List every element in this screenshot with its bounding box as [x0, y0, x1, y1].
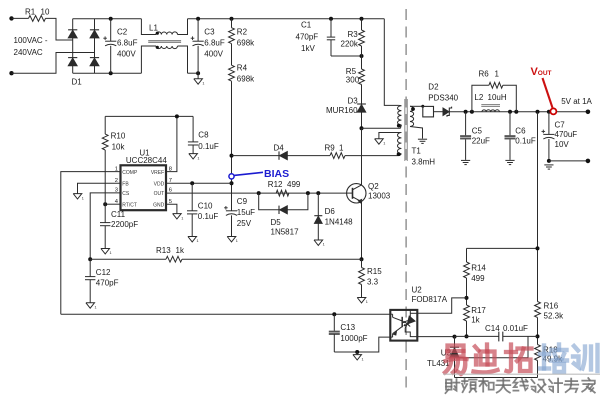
svg-text:1kV: 1kV [301, 44, 315, 53]
svg-text:10k: 10k [112, 143, 126, 152]
svg-text:470uF: 470uF [555, 130, 578, 139]
svg-text:OUT: OUT [154, 191, 165, 197]
svg-text:C2: C2 [117, 27, 128, 36]
svg-text:698k: 698k [237, 39, 255, 48]
svg-text:R1: R1 [25, 8, 36, 17]
svg-text:1: 1 [82, 196, 84, 200]
svg-text:10: 10 [41, 8, 50, 17]
svg-text:499: 499 [287, 180, 301, 189]
svg-text:OUT: OUT [538, 70, 552, 77]
svg-text:1k: 1k [176, 246, 185, 255]
svg-text:698k: 698k [237, 74, 255, 83]
svg-text:GND: GND [153, 202, 165, 208]
svg-text:C9: C9 [237, 197, 248, 206]
svg-text:CS: CS [122, 191, 130, 197]
svg-text:3.8mH: 3.8mH [412, 157, 436, 166]
svg-text:1: 1 [495, 70, 500, 79]
svg-text:1: 1 [202, 82, 204, 86]
svg-text:1: 1 [95, 306, 97, 310]
svg-text:R12: R12 [268, 180, 283, 189]
svg-text:15uF: 15uF [237, 208, 255, 217]
svg-text:300: 300 [346, 76, 360, 85]
svg-text:1: 1 [181, 216, 183, 220]
svg-text:BIAS: BIAS [264, 168, 289, 180]
svg-text:10V: 10V [555, 140, 570, 149]
svg-text:R6: R6 [479, 70, 490, 79]
svg-text:C14: C14 [485, 324, 500, 333]
svg-text:2200pF: 2200pF [111, 220, 138, 229]
svg-text:R2: R2 [237, 28, 248, 37]
svg-text:C11: C11 [111, 210, 126, 219]
svg-text:10uH: 10uH [488, 93, 507, 102]
svg-text:C13: C13 [340, 323, 355, 332]
svg-text:1: 1 [197, 156, 199, 160]
svg-text:499: 499 [471, 274, 485, 283]
svg-text:R15: R15 [367, 267, 382, 276]
svg-text:400V: 400V [204, 50, 223, 59]
svg-text:22uF: 22uF [472, 136, 490, 145]
svg-text:COMP: COMP [122, 170, 138, 176]
svg-text:1: 1 [362, 357, 364, 361]
svg-text:L1: L1 [149, 24, 158, 33]
svg-text:C10: C10 [198, 202, 213, 211]
svg-text:1: 1 [339, 143, 344, 152]
svg-text:VDD: VDD [154, 181, 165, 187]
svg-text:13003: 13003 [368, 192, 391, 201]
svg-text:MUR160: MUR160 [326, 106, 358, 115]
svg-text:C8: C8 [198, 131, 209, 140]
svg-text:6.8uF: 6.8uF [117, 39, 138, 48]
svg-text:100VAC -: 100VAC - [14, 36, 48, 45]
svg-text:470pF: 470pF [296, 33, 319, 42]
svg-text:U2: U2 [412, 285, 423, 294]
svg-text:470pF: 470pF [96, 279, 119, 288]
svg-text:1N4148: 1N4148 [325, 217, 354, 226]
svg-text:C12: C12 [96, 268, 111, 277]
svg-text:RT/CT: RT/CT [122, 202, 137, 208]
svg-text:1: 1 [383, 142, 385, 146]
svg-text:400V: 400V [117, 50, 136, 59]
svg-text:R5: R5 [346, 67, 357, 76]
svg-text:1N5817: 1N5817 [271, 227, 300, 236]
svg-text:1: 1 [323, 243, 325, 247]
svg-text:C1: C1 [301, 21, 312, 30]
svg-text:R13: R13 [156, 246, 171, 255]
svg-text:D3: D3 [348, 97, 359, 106]
svg-text:5V at 1A: 5V at 1A [561, 97, 592, 106]
svg-text:C5: C5 [472, 126, 483, 135]
svg-text:D5: D5 [271, 218, 282, 227]
svg-text:1: 1 [236, 239, 238, 243]
svg-text:0.01uF: 0.01uF [503, 324, 528, 333]
svg-text:220k: 220k [341, 39, 359, 48]
svg-text:D1: D1 [72, 78, 83, 87]
svg-text:D4: D4 [274, 143, 285, 152]
svg-text:C3: C3 [204, 27, 215, 36]
svg-text:1: 1 [110, 251, 112, 255]
svg-text:0.1uF: 0.1uF [198, 142, 219, 151]
svg-text:R17: R17 [471, 306, 486, 315]
svg-text:R10: R10 [111, 132, 126, 141]
svg-text:6.8uF: 6.8uF [204, 39, 225, 48]
svg-text:D6: D6 [325, 207, 336, 216]
svg-text:1: 1 [197, 239, 199, 243]
svg-text:52.3k: 52.3k [544, 311, 565, 320]
svg-text:1000pF: 1000pF [340, 334, 367, 343]
svg-text:D2: D2 [428, 83, 439, 92]
svg-text:R9: R9 [325, 143, 336, 152]
svg-text:0.1uF: 0.1uF [515, 136, 536, 145]
svg-text:FB: FB [122, 181, 129, 187]
svg-text:0.1uF: 0.1uF [198, 212, 219, 221]
svg-text:25V: 25V [237, 219, 252, 228]
svg-text:1k: 1k [471, 315, 480, 324]
svg-text:VREF: VREF [151, 170, 164, 176]
svg-text:1: 1 [366, 300, 368, 304]
svg-text:R3: R3 [348, 30, 359, 39]
svg-text:PDS340: PDS340 [428, 93, 458, 102]
svg-text:Q2: Q2 [368, 182, 379, 191]
svg-text:UCC28C44: UCC28C44 [126, 156, 167, 165]
svg-text:R14: R14 [471, 264, 486, 273]
svg-text:R16: R16 [544, 302, 559, 311]
svg-text:3.3: 3.3 [367, 278, 379, 287]
svg-text:C7: C7 [555, 120, 566, 129]
svg-text:L2: L2 [474, 93, 483, 102]
svg-text:FOD817A: FOD817A [412, 295, 448, 304]
svg-text:240VAC: 240VAC [14, 48, 43, 57]
svg-text:T1: T1 [412, 147, 422, 156]
svg-text:C6: C6 [515, 126, 526, 135]
svg-text:R4: R4 [237, 64, 248, 73]
